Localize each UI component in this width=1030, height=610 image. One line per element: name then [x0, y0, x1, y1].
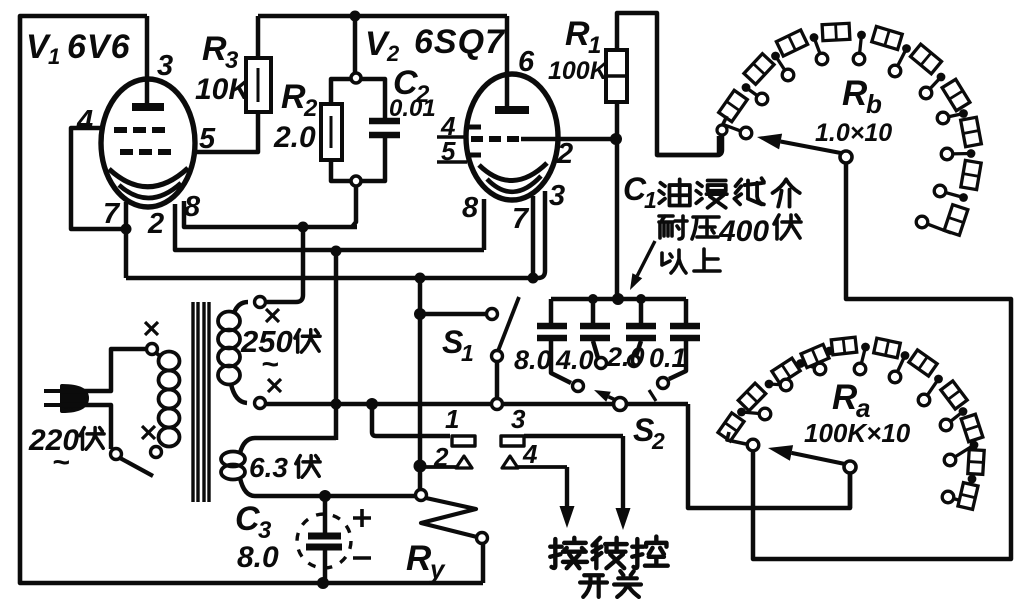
resistor R3: [246, 58, 271, 112]
node R2C2 top: [351, 73, 361, 83]
switch primary contact: [111, 449, 122, 460]
svg-text:100K: 100K: [548, 57, 610, 85]
wire R1 bottom: [615, 102, 620, 139]
wire primary top link: [155, 352, 160, 356]
wire R2 branch: [331, 79, 352, 104]
wire cap1 lead: [551, 341, 571, 383]
svg-text:R: R: [565, 15, 590, 53]
svg-text:R: R: [842, 74, 868, 113]
svg-text:10K: 10K: [195, 73, 252, 106]
svg-text:3: 3: [157, 50, 173, 82]
wire Rb wiper down and right border: [753, 163, 1011, 559]
tube V2 cathode arcs: [479, 163, 547, 181]
svg-text:2.0: 2.0: [606, 342, 645, 372]
tube V2 plate: [495, 106, 529, 114]
winding 250V loops: [218, 312, 240, 331]
junction bus a: [331, 399, 342, 410]
plug 220V: [62, 386, 87, 411]
svg-text:4: 4: [76, 105, 93, 137]
svg-text:3: 3: [511, 404, 526, 434]
wire V2 plate feed: [505, 16, 510, 106]
transformer core: [191, 302, 194, 502]
junction node pin8: [298, 222, 309, 233]
wire plug bottom: [60, 405, 111, 449]
wire 6.3V bottom link: [240, 478, 416, 496]
switch S2 wiper: [609, 397, 620, 402]
label kai-guan (switch): [580, 575, 607, 597]
wire 250V top link: [234, 302, 248, 313]
svg-text:6.3: 6.3: [249, 452, 288, 483]
svg-text:7: 7: [512, 203, 530, 235]
junction rail c: [636, 294, 646, 304]
contact cap3: [629, 356, 640, 367]
svg-text:2: 2: [303, 95, 318, 122]
wire S1 feed: [420, 312, 487, 317]
svg-text:400: 400: [718, 215, 769, 248]
rotary resistor bank Ra: [742, 412, 761, 414]
wire V2 pin8 riser: [482, 199, 487, 250]
wire R2 bottom: [331, 160, 351, 181]
arrow C1 pointer: [637, 241, 655, 276]
capacitor bank C2 stub: [591, 299, 596, 323]
wire heater riser: [334, 251, 339, 440]
svg-text:2: 2: [147, 208, 164, 240]
junction C3 bottom: [317, 577, 329, 589]
wire 250V bottom link: [231, 384, 247, 403]
wire R3 bottom to V1 pin5: [197, 112, 258, 152]
label x mark 250V top: [266, 309, 279, 322]
capacitor C3 plates: [308, 533, 341, 540]
junction rail b: [612, 293, 624, 305]
svg-text:C: C: [235, 500, 260, 538]
terminal 250V top: [255, 297, 266, 308]
wire R1 top to Rb: [617, 13, 719, 155]
junction heater B: [331, 246, 342, 257]
svg-text:3: 3: [225, 47, 239, 74]
svg-text:7: 7: [103, 198, 121, 230]
wire top rail: [258, 14, 507, 19]
wire V2 pin7: [531, 196, 536, 278]
capacitor bank C1 plates: [537, 323, 567, 330]
terminal primary top: [147, 344, 158, 355]
contact 4 moving: [502, 456, 518, 468]
svg-text:6SQ7: 6SQ7: [414, 23, 506, 61]
wire Ra wiper stem: [848, 473, 853, 508]
relay Ry terminal top: [416, 490, 427, 501]
wiper arm Ra with arrow: [791, 453, 845, 464]
relay Ry coil: [421, 498, 477, 537]
wire V1 pin7 down: [124, 202, 129, 278]
svg-text:R: R: [202, 30, 227, 68]
junction heater-S1 branch: [415, 273, 426, 284]
tube V1 envelope: [101, 79, 195, 207]
tube V1 cathode arcs: [109, 168, 188, 187]
svg-text:1: 1: [445, 404, 459, 434]
resistor R2: [321, 104, 342, 160]
junction pin7-bracket: [121, 224, 132, 235]
wire V2 pin3: [538, 191, 545, 278]
svg-text:8.0: 8.0: [514, 345, 552, 375]
svg-text:2: 2: [651, 428, 665, 454]
label 220V fu: [80, 428, 104, 450]
svg-text:2: 2: [433, 442, 449, 472]
svg-text:8: 8: [462, 192, 479, 224]
capacitor C2 plates: [369, 118, 400, 125]
svg-text:1: 1: [461, 340, 474, 366]
wire armature to Ry: [418, 466, 423, 490]
label C1 note: nai-ya 400 fu (withstand 400V): [659, 216, 687, 239]
junction R1 bottom: [610, 133, 622, 145]
wire V1 pin4 bracket: [71, 128, 124, 229]
svg-text:8.0: 8.0: [237, 541, 279, 574]
arrow to controlled switch left: [565, 467, 569, 506]
svg-text:~: ~: [261, 348, 279, 381]
junction C3 top: [319, 490, 331, 502]
junction rail a: [588, 294, 598, 304]
junction top rail: [350, 11, 361, 22]
rotary resistor bank Rb: [722, 124, 742, 131]
relay Ry terminal bottom: [477, 533, 488, 544]
capacitor C3 dashed circle: [297, 514, 351, 568]
wire C2 branch: [361, 79, 385, 118]
wire V1 pin8 jog: [184, 201, 357, 227]
wire S1 to bus: [495, 361, 500, 399]
wiper arm Rb with arrow: [781, 142, 846, 154]
winding primary loops: [159, 352, 180, 371]
capacitor bank C2 plates: [580, 323, 610, 330]
wire V1 plate feed: [145, 16, 150, 104]
wire contact1 feed: [372, 404, 450, 436]
label C1 note: yi-shang (or more): [662, 250, 686, 273]
contact cap1: [573, 381, 584, 392]
wire bus to Ra: [688, 404, 850, 508]
wire plug top: [60, 349, 146, 391]
svg-text:R: R: [406, 539, 432, 578]
switch S1 fixed contact: [487, 309, 498, 320]
wire outer frame left+top+bottom: [20, 16, 483, 583]
wire 6.3V top link: [240, 438, 336, 453]
svg-text:1: 1: [48, 44, 60, 69]
junction pin7 heater: [528, 273, 539, 284]
junction S1 branch: [414, 308, 426, 320]
label 6.3V fu: [296, 456, 320, 478]
wire R2C2 to pin8 line: [352, 186, 356, 227]
svg-text:1: 1: [588, 32, 601, 59]
wire R1 to cap rail: [615, 139, 620, 299]
resistor R1: [606, 50, 627, 102]
wire C3 bottom: [323, 550, 328, 583]
svg-text:b: b: [866, 89, 882, 119]
wire contact3 to arrow: [524, 434, 623, 439]
label x mark primary top: [145, 322, 158, 335]
svg-text:R: R: [832, 378, 858, 417]
junction armature: [414, 460, 427, 473]
switch S1 lever: [498, 297, 519, 351]
capacitor bank C3 stub: [639, 299, 644, 323]
svg-text:100K×10: 100K×10: [804, 418, 911, 448]
svg-text:0.1: 0.1: [649, 343, 687, 373]
svg-text:2.0: 2.0: [273, 121, 316, 154]
label 250V fu: [295, 330, 320, 352]
tube V1 grid row1: [114, 127, 127, 133]
tube V2 diode plates: [468, 125, 481, 130]
switch primary lever: [120, 458, 153, 476]
label x mark primary bottom: [142, 426, 155, 439]
svg-text:1.0×10: 1.0×10: [815, 119, 892, 147]
svg-text:6V6: 6V6: [67, 28, 131, 66]
wire cap2 lead: [593, 341, 598, 358]
wire C3 top: [323, 496, 328, 533]
wire cap4 lead: [669, 341, 686, 379]
wire armature vertical: [418, 278, 423, 466]
wire main bus: [266, 402, 688, 407]
contact 3 fixed: [501, 436, 524, 446]
terminal Ra chain start: [747, 439, 759, 451]
svg-text:4: 4: [522, 439, 538, 469]
label C1 note: you-jin-zhi-jie4 (oil paper): [659, 179, 690, 205]
wire cap3 lead: [636, 341, 641, 356]
contact 1 fixed: [452, 436, 475, 446]
svg-text:y: y: [428, 554, 446, 584]
wire R2C2 top feed: [353, 16, 358, 73]
wire Ry to bottom bus: [481, 543, 486, 583]
wire Rb feed: [657, 135, 722, 155]
svg-text:8: 8: [184, 191, 201, 223]
junction bus b: [366, 398, 378, 410]
svg-text:4.0: 4.0: [555, 345, 594, 375]
label C3 plus: [353, 516, 371, 520]
contact cap2: [596, 358, 607, 369]
wire 250V top riser: [267, 227, 303, 302]
wire C2 bottom: [362, 138, 385, 181]
wire primary bottom link: [158, 449, 161, 451]
label C3 minus: [353, 556, 371, 560]
svg-text:3: 3: [258, 517, 272, 544]
arrow to controlled switch right: [621, 436, 625, 508]
terminal primary bottom: [151, 447, 162, 458]
winding 6.3V loops: [221, 452, 245, 467]
terminal Rb feed: [717, 125, 727, 135]
capacitor bank C4 plates: [670, 323, 700, 330]
label x mark 250V bottom: [268, 379, 281, 392]
svg-text:R: R: [281, 78, 306, 116]
terminal 250V bottom: [255, 398, 266, 409]
capacitor bank C4 stub: [684, 299, 689, 323]
svg-text:2: 2: [556, 138, 573, 170]
svg-text:~: ~: [52, 446, 70, 479]
contact 2 moving: [420, 465, 459, 469]
tube V2 grid dashes: [471, 136, 483, 142]
node R2C2 bottom: [351, 176, 361, 186]
capacitor bank C1 stub: [549, 299, 554, 323]
wire V2 pin2: [521, 137, 612, 142]
capacitor bank C3 plates: [626, 323, 656, 330]
tube V2 envelope: [466, 74, 558, 200]
svg-text:1: 1: [644, 187, 657, 213]
label jie-bei-kong (to controlled): [550, 538, 587, 568]
tube V1 plate: [132, 103, 164, 111]
svg-text:3: 3: [549, 180, 565, 212]
wire R3 top: [256, 16, 261, 58]
contact cap4: [658, 378, 669, 389]
tube V1 grid row2: [120, 149, 133, 155]
svg-text:2: 2: [386, 41, 400, 66]
wire cap bank rail: [551, 297, 686, 302]
wire heater line A (V1 pin7 to V2 pins): [126, 276, 533, 281]
wire V1 pin2 down: [175, 204, 484, 250]
contact S1 on bus: [492, 399, 503, 410]
